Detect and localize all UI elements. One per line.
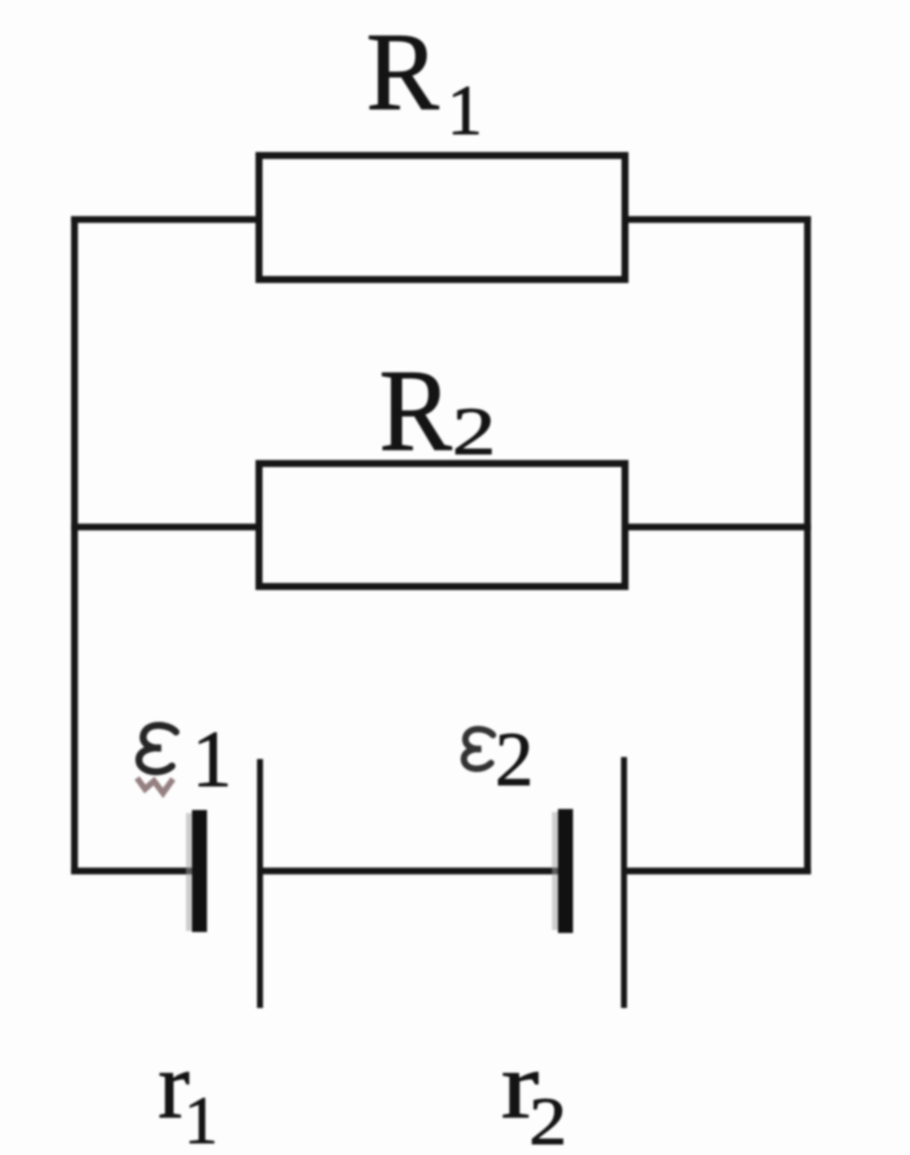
svg-text:2: 2 — [495, 716, 534, 802]
svg-text:2: 2 — [529, 1083, 567, 1155]
svg-text:R: R — [379, 345, 452, 476]
svg-text:2: 2 — [452, 393, 496, 469]
svg-text:1: 1 — [184, 1082, 218, 1155]
svg-text:1: 1 — [192, 716, 232, 804]
svg-text:R: R — [366, 11, 439, 134]
svg-text:1: 1 — [447, 72, 483, 150]
